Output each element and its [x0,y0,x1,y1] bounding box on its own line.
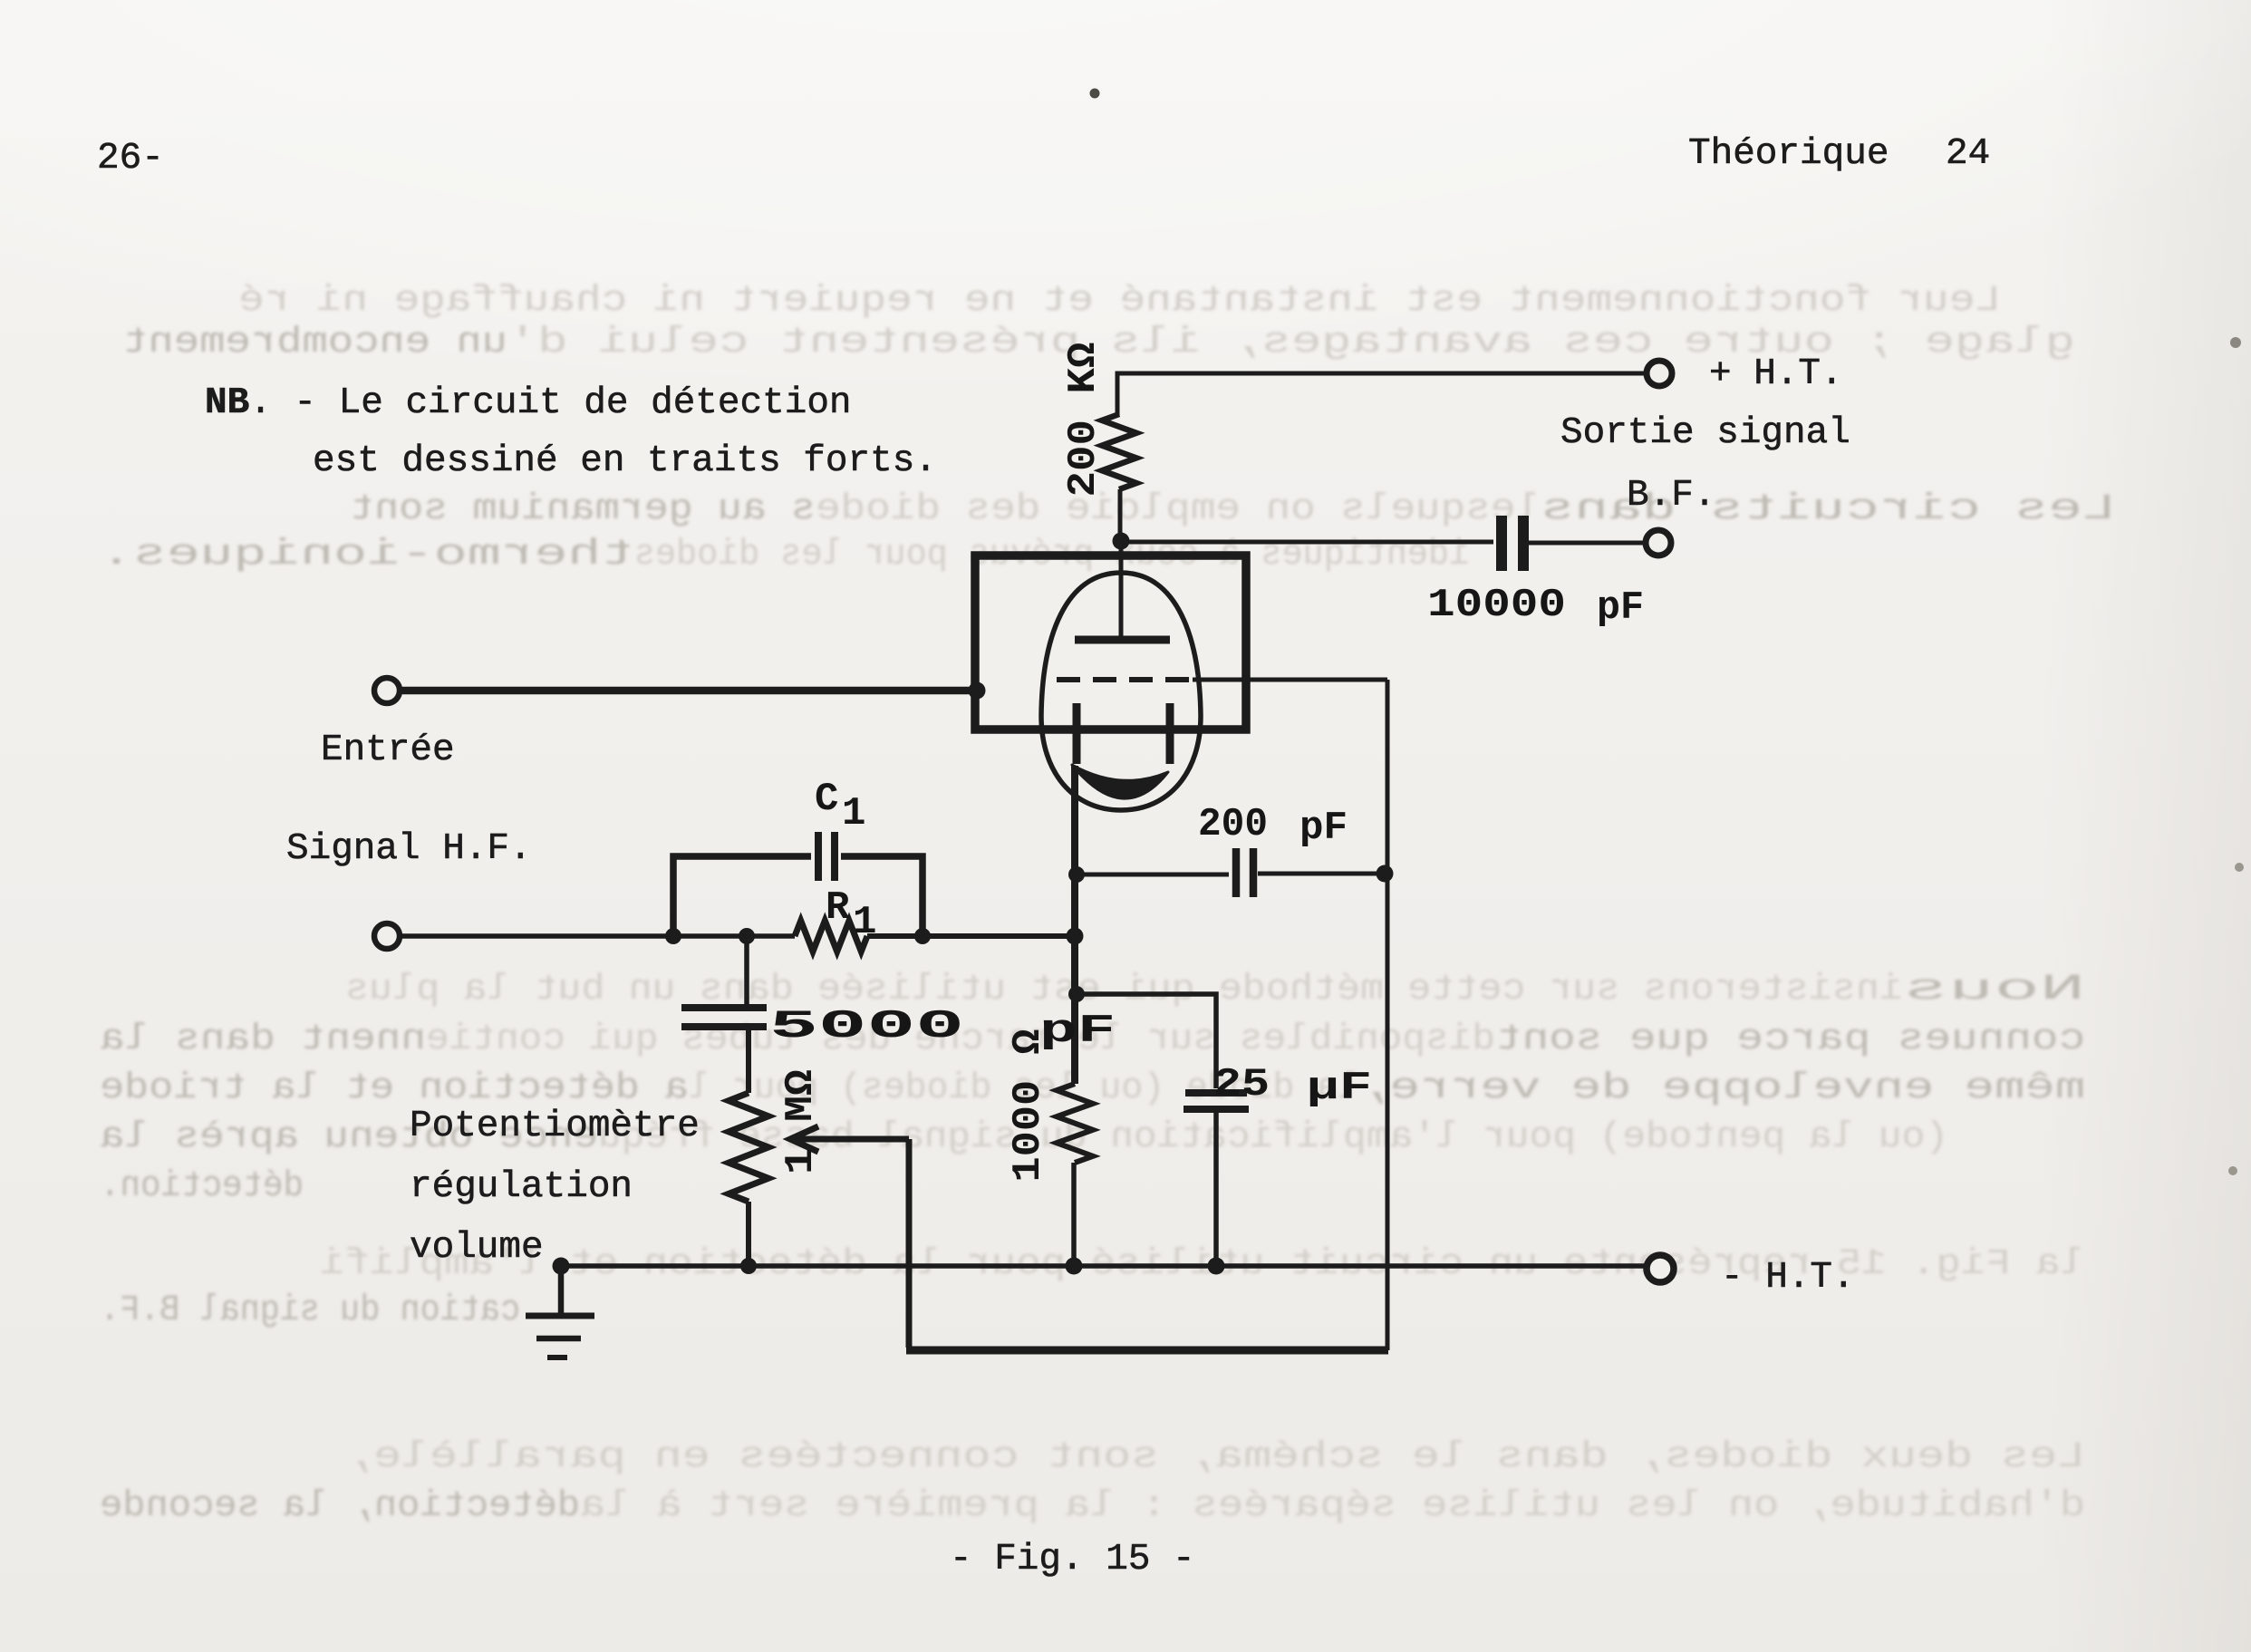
right edge specks [2230,337,2241,348]
ground [558,1266,565,1313]
wire: 200K bottom lead [1118,489,1123,540]
wire: anode junction to 10000pF [1121,540,1493,545]
svg-text:Signal H.F.: Signal H.F. [286,828,532,870]
svg-text:Théorique: Théorique [1688,133,1889,175]
wire: wiper vertical down [906,1139,913,1348]
wire: right vertical from grid line down to bottom return [1386,680,1390,1350]
wire: 200pF left lead from cathode [1077,873,1229,877]
svg-text:24: 24 [1946,133,1990,175]
subtle scan shading [2039,0,2251,1652]
svg-text:200 KΩ: 200 KΩ [1061,343,1106,498]
svg-text:- H.T.: - H.T. [1721,1257,1855,1299]
svg-text:5000: 5000 [769,1004,964,1049]
node: anode junction [1113,533,1130,550]
svg-text:s au germanium sont: s au germanium sont [350,489,816,530]
wire: 200pF right lead [1258,872,1385,876]
tube V1: diode anode right [1166,703,1174,764]
svg-text:25: 25 [1213,1062,1270,1107]
svg-text:1 MΩ: 1 MΩ [778,1069,824,1174]
wire: 5000pF bottom lead [746,1030,751,1093]
capacitor 10000 pF [1496,516,1507,571]
wire: 5000pF top lead [744,936,749,1004]
tube V1: anode lead [1119,540,1124,636]
capacitor C1 [815,832,822,881]
svg-text:thermo-ioniques.: thermo-ioniques. [100,535,634,575]
resistor 1000 ohm [1057,1084,1093,1163]
small ink speck top middle [1090,89,1100,99]
wire: C1 parallel loop left+top (thick) [673,856,811,936]
node: ground tap [553,1258,570,1275]
svg-text:26-: 26- [97,138,164,179]
svg-text:Nous: Nous [1903,970,2085,1010]
svg-text:1: 1 [853,900,876,945]
node: cathode / R1 wire [1067,928,1084,945]
svg-text:insisterons sur cette méthode: insisterons sur cette méthode qui est ut… [345,970,1903,1010]
svg-text:lesquels on emploie des diode: lesquels on emploie des diode [816,489,1541,530]
terminal: Entree bottom [374,923,400,949]
tube V1: filament [1072,765,1168,798]
svg-text:200: 200 [1198,802,1268,847]
faint bleed-through text from reverse page (mirrored) [238,281,2001,322]
tube V1: envelope [1041,573,1201,810]
svg-text:volume: volume [410,1227,544,1269]
tube V1: diode anode left [1073,703,1081,764]
wire: C1 loop top right+down (thick) [841,856,923,936]
node: input wire / box [969,682,986,700]
svg-text:un encombrement: un encombrement [122,323,507,363]
wire: 1000 ohm bottom lead [1071,1163,1077,1262]
svg-text:est dessiné en traits forts.: est dessiné en traits forts. [313,440,937,482]
node: 25uF bottom [1208,1258,1225,1275]
node: cathode / 25uF [1068,986,1085,1002]
capacitor 25 uF [1185,1089,1247,1097]
terminal: Entree top [374,678,400,703]
terminal: -H.T. [1647,1255,1674,1282]
node: loop left [665,928,681,944]
wire: bottom -H.T. rail [561,1263,1646,1269]
wire: 10000pF to B.F. terminal [1527,541,1646,546]
svg-text:10000: 10000 [1427,583,1566,628]
wire: wiper shaft [792,1136,909,1143]
resistor R1 [795,921,867,952]
svg-text:connues parce que sont: connues parce que sont [1495,1019,2085,1060]
svg-text:B.F.: B.F. [1627,475,1715,517]
svg-text:Leur fonctionnement est instan: Leur fonctionnement est instantané et ne… [238,281,2001,322]
svg-text:µF: µF [1307,1066,1372,1111]
svg-text:- Fig. 15 -: - Fig. 15 - [950,1539,1195,1580]
svg-text:NB. - Le circuit de détection: NB. - Le circuit de détection [205,382,852,424]
resistor 200 K ohm [1102,414,1136,489]
terminal: B.F. output [1646,530,1671,555]
svg-text:Entrée: Entrée [321,729,455,771]
svg-text:1000 Ω: 1000 Ω [1006,1029,1051,1183]
wire: lower input to R1 [400,933,795,939]
wire: grid line solid part to right elbow [1193,678,1387,682]
svg-text:détection, la seconde: détection, la seconde [100,1486,580,1527]
svg-text:a détection et la triode: a détection et la triode [100,1068,689,1109]
node: cathode / 200pF [1068,866,1085,883]
svg-text:Potentiomètre: Potentiomètre [410,1106,700,1147]
wire: thick bottom return line [906,1347,1388,1355]
node: 1000 ohm bottom [1066,1258,1083,1275]
tube V1: anode plate [1075,636,1170,644]
svg-text:Les deux diodes, dans le schém: Les deux diodes, dans le schéma, sont co… [345,1437,2085,1478]
svg-text:détection.: détection. [100,1166,304,1207]
tube V1: detection box (thick) [975,555,1246,729]
svg-text:R: R [826,885,850,931]
node: 5000pF tap [739,928,755,944]
wire: +H.T. line from 200K resistor top [1117,373,1647,417]
wire: R1 to cathode line [867,933,1075,939]
tube V1: grid (dashed) [1057,677,1194,682]
wire: 25uF branch from cathode [1077,994,1216,1088]
node: loop right [914,928,931,944]
node: pot bottom [740,1258,757,1274]
svg-text:nnent dans la: nnent dans la [100,1019,426,1060]
terminal: +H.T. [1647,361,1672,386]
svg-text:1: 1 [842,791,865,836]
svg-text:C: C [815,777,838,822]
wire: cathode vertical (thick) [1071,766,1078,1084]
svg-text:pF: pF [1597,585,1644,631]
capacitor 200 pF [1232,848,1241,897]
potentiometer 1 M ohm [729,1093,768,1202]
capacitor 5000 pF [681,1004,767,1011]
potentiometer wiper arrow [790,1126,818,1152]
svg-text:Sortie signal: Sortie signal [1560,412,1850,454]
svg-text:pF: pF [1299,806,1348,851]
svg-text:+ H.T.: + H.T. [1709,353,1843,395]
wire: 25uF bottom lead [1213,1113,1219,1262]
node: 200pF / right vertical [1377,865,1394,883]
svg-text:cation du signal B.F.: cation du signal B.F. [100,1290,520,1331]
wire: potentiometer bottom lead [746,1202,751,1261]
svg-text:d'habitude, on les utilise sép: d'habitude, on les utilise séparées : la… [580,1486,2085,1527]
svg-text:même enveloppe de verre,: même enveloppe de verre, [1359,1068,2085,1109]
svg-text:régulation: régulation [410,1166,633,1208]
wire: Entree top to tube box (thick) [400,687,975,695]
